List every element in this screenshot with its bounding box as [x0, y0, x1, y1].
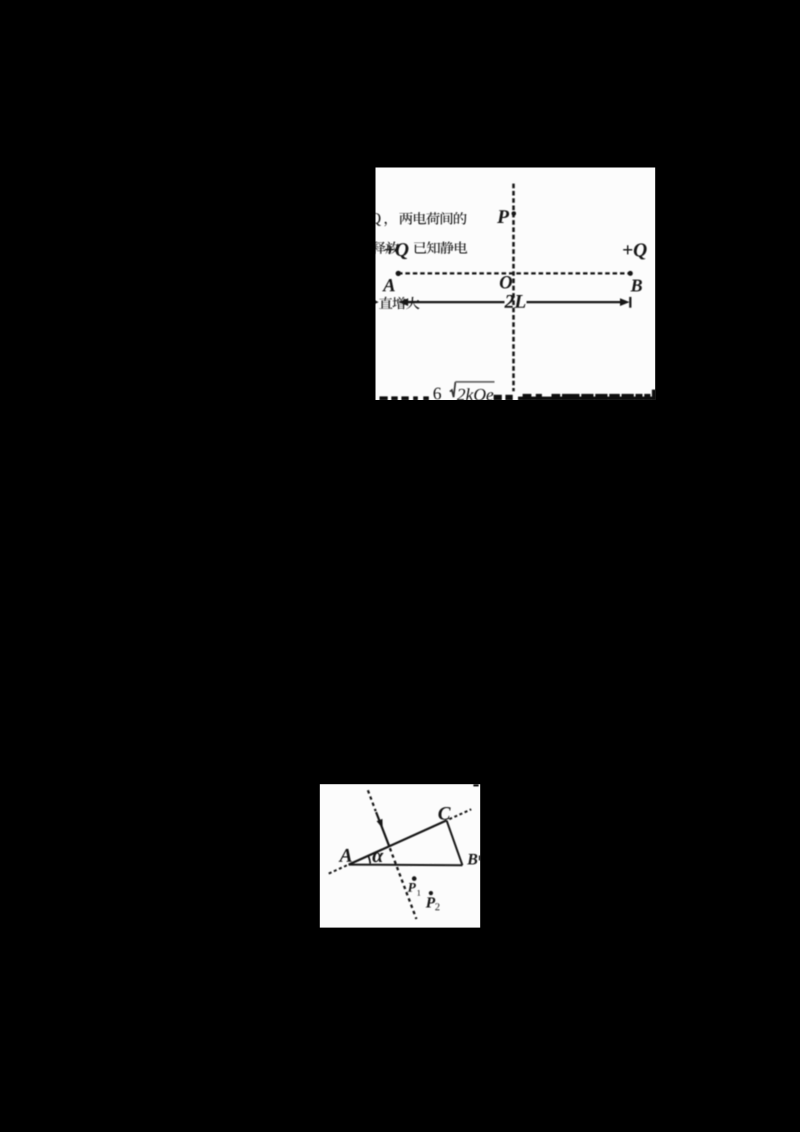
figure 2 white panel — [320, 784, 481, 928]
charge label +Q at B — [623, 243, 646, 259]
label alpha — [372, 853, 383, 863]
label A — [382, 279, 395, 291]
paragraph text line 1: Q, 两电荷间的 — [371, 213, 381, 226]
label B — [467, 854, 477, 865]
label O — [500, 276, 512, 288]
node A dot — [396, 271, 401, 276]
partial arrow fragment at left edge — [373, 299, 379, 305]
node B dot — [628, 271, 633, 276]
vertical dashed axis through O — [512, 184, 515, 392]
label A — [339, 849, 352, 862]
angle arc alpha at A — [368, 855, 370, 864]
label B — [630, 280, 642, 292]
incident ray dashed upper part — [368, 790, 376, 811]
point P2 dot — [429, 891, 433, 895]
paragraph text line 3: 直增大 — [379, 297, 392, 309]
triangle side AB — [349, 864, 463, 867]
label 2L — [504, 295, 525, 308]
figure 1 white panel — [376, 168, 656, 401]
label P — [497, 210, 509, 223]
black notch top right — [473, 784, 478, 786]
triangle side CB — [447, 820, 463, 865]
2L dimension line right segment — [527, 301, 624, 303]
label C — [438, 807, 450, 820]
2L dimension line left segment — [404, 301, 505, 303]
terminator tick at right end — [629, 297, 631, 308]
incident ray solid segment — [376, 812, 389, 846]
charge label +Q at A — [385, 243, 408, 259]
left arrowhead of 2L line — [399, 298, 409, 306]
incident ray arrowhead — [377, 819, 383, 829]
ray dashed lower part — [390, 848, 417, 919]
black tick at right edge near B — [479, 856, 481, 861]
point P1 dot — [412, 876, 417, 881]
clipped text band at figure bottom — [380, 396, 388, 400]
right arrowhead of 2L line — [620, 298, 630, 306]
dashed extension of CA beyond C — [449, 809, 471, 819]
label P1 — [408, 883, 416, 892]
triangle side AC — [349, 820, 447, 864]
horizontal dashed line A-B — [398, 272, 631, 274]
point P dot — [512, 211, 517, 216]
formula 6 sqrt(2kQe) — [434, 388, 441, 400]
label P2 — [426, 897, 436, 907]
paragraph text line 2: 释放 已知静电 — [372, 241, 386, 253]
dashed extension of CA beyond A — [327, 865, 347, 874]
